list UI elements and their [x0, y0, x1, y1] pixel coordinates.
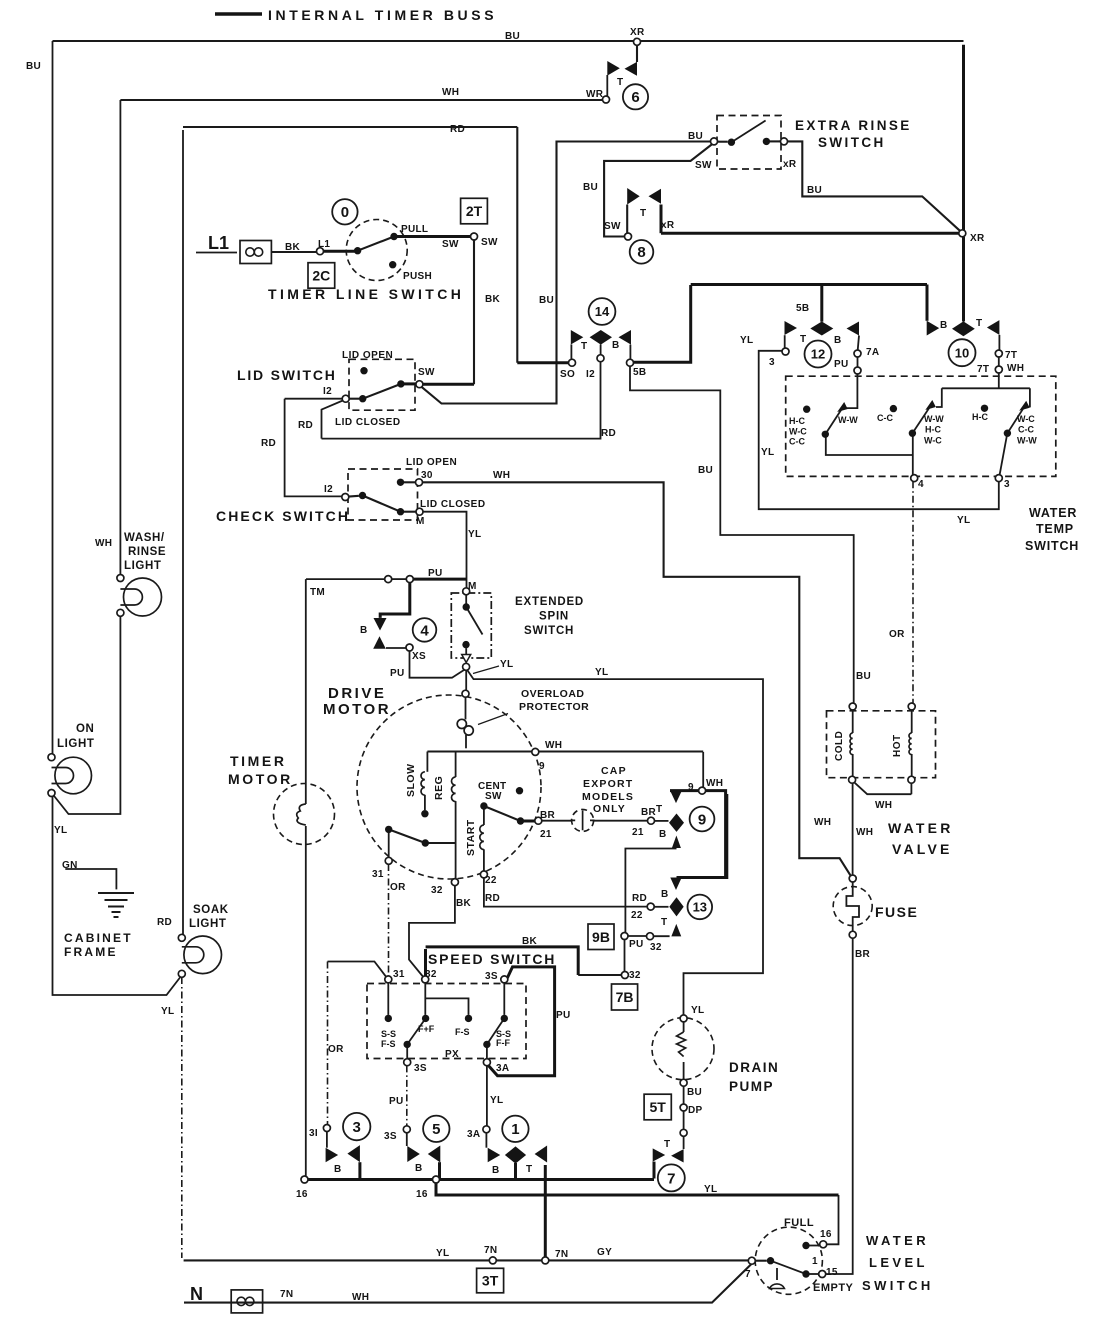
- svg-text:SW: SW: [418, 367, 435, 378]
- svg-text:2C: 2C: [312, 267, 330, 283]
- svg-text:7T: 7T: [1005, 350, 1017, 361]
- svg-text:GY: GY: [597, 1247, 612, 1258]
- svg-text:YL: YL: [490, 1095, 503, 1106]
- svg-text:WH: WH: [814, 817, 831, 828]
- svg-text:M: M: [416, 516, 425, 527]
- svg-text:22: 22: [631, 910, 643, 921]
- svg-text:RD: RD: [157, 917, 172, 928]
- svg-text:SWITCH: SWITCH: [524, 625, 574, 637]
- svg-text:3I: 3I: [309, 1128, 318, 1139]
- svg-text:C-C: C-C: [1018, 425, 1034, 435]
- svg-text:PX: PX: [445, 1049, 459, 1060]
- svg-text:LIGHT: LIGHT: [57, 738, 95, 750]
- svg-text:16: 16: [296, 1189, 308, 1200]
- svg-text:DP: DP: [688, 1105, 703, 1116]
- svg-text:LID CLOSED: LID CLOSED: [335, 417, 401, 428]
- svg-text:BR: BR: [540, 810, 556, 821]
- svg-text:2T: 2T: [466, 203, 483, 219]
- svg-text:12: 12: [811, 347, 825, 362]
- svg-text:EXTRA RINSE: EXTRA RINSE: [795, 118, 912, 133]
- svg-text:BR: BR: [641, 807, 657, 818]
- svg-text:YL: YL: [761, 447, 774, 458]
- svg-text:XR: XR: [970, 233, 985, 244]
- svg-text:LID CLOSED: LID CLOSED: [420, 499, 486, 510]
- svg-text:PU: PU: [556, 1010, 571, 1021]
- svg-text:DRIVE: DRIVE: [328, 685, 386, 702]
- svg-text:3: 3: [353, 1119, 361, 1136]
- svg-text:WH: WH: [706, 778, 723, 789]
- svg-text:I2: I2: [586, 369, 595, 380]
- svg-text:YL: YL: [436, 1248, 449, 1259]
- svg-text:COLD: COLD: [834, 731, 845, 761]
- svg-text:31: 31: [393, 969, 405, 980]
- svg-text:OR: OR: [889, 629, 905, 640]
- svg-text:7N: 7N: [484, 1245, 497, 1256]
- svg-text:SO: SO: [560, 369, 575, 380]
- svg-text:SW: SW: [442, 239, 459, 250]
- svg-text:3S: 3S: [384, 1131, 397, 1142]
- svg-text:3S: 3S: [414, 1063, 427, 1074]
- svg-text:B: B: [360, 625, 368, 636]
- svg-text:B: B: [612, 340, 620, 351]
- svg-text:FUSE: FUSE: [875, 904, 918, 920]
- svg-text:RD: RD: [261, 438, 276, 449]
- svg-text:7T: 7T: [977, 364, 989, 375]
- svg-text:SPIN: SPIN: [539, 611, 569, 623]
- svg-text:I2: I2: [323, 386, 332, 397]
- svg-text:T: T: [640, 208, 646, 219]
- svg-text:CABINET: CABINET: [64, 931, 133, 945]
- svg-text:BK: BK: [522, 936, 538, 947]
- svg-text:B: B: [661, 889, 669, 900]
- svg-text:BU: BU: [856, 671, 871, 682]
- svg-text:T: T: [526, 1164, 532, 1175]
- svg-text:10: 10: [955, 345, 969, 360]
- svg-text:xR: xR: [661, 220, 675, 231]
- svg-text:SLOW: SLOW: [405, 764, 417, 798]
- svg-text:3: 3: [1004, 479, 1010, 490]
- svg-text:SWITCH: SWITCH: [818, 135, 886, 150]
- svg-text:T: T: [800, 334, 806, 345]
- svg-text:SW: SW: [604, 221, 621, 232]
- svg-text:SW: SW: [695, 160, 712, 171]
- svg-text:RD: RD: [485, 893, 500, 904]
- svg-text:3T: 3T: [482, 1273, 499, 1289]
- svg-text:PU: PU: [834, 359, 849, 370]
- svg-text:32: 32: [425, 969, 437, 980]
- svg-text:5B: 5B: [633, 367, 646, 378]
- svg-text:WH: WH: [352, 1292, 369, 1303]
- svg-text:7A: 7A: [866, 347, 879, 358]
- svg-text:22: 22: [485, 875, 497, 886]
- svg-text:CHECK SWITCH: CHECK SWITCH: [216, 508, 350, 524]
- svg-text:OVERLOAD: OVERLOAD: [521, 688, 585, 700]
- svg-text:BU: BU: [505, 31, 520, 42]
- svg-text:RD: RD: [601, 428, 616, 439]
- svg-text:W-C: W-C: [1017, 414, 1035, 424]
- svg-text:C-C: C-C: [877, 413, 893, 423]
- svg-text:LEVEL: LEVEL: [869, 1255, 928, 1270]
- svg-text:B: B: [834, 335, 842, 346]
- svg-text:3: 3: [769, 357, 775, 368]
- svg-text:32: 32: [650, 942, 662, 953]
- svg-text:31: 31: [372, 869, 384, 880]
- svg-text:LID SWITCH: LID SWITCH: [237, 367, 337, 383]
- svg-text:32: 32: [431, 885, 443, 896]
- svg-text:OR: OR: [328, 1044, 344, 1055]
- svg-text:WASH/: WASH/: [124, 532, 165, 544]
- svg-text:I2: I2: [324, 484, 333, 495]
- svg-text:B: B: [334, 1164, 342, 1175]
- svg-text:WATER: WATER: [1029, 506, 1077, 520]
- svg-text:W-W: W-W: [1017, 436, 1037, 446]
- svg-text:PU: PU: [428, 568, 443, 579]
- svg-text:RD: RD: [450, 124, 465, 135]
- svg-text:T: T: [617, 77, 623, 88]
- svg-text:7: 7: [667, 1170, 675, 1187]
- svg-text:SWITCH: SWITCH: [1025, 539, 1079, 553]
- svg-text:REG: REG: [433, 776, 445, 800]
- svg-text:BU: BU: [698, 465, 713, 476]
- svg-text:9B: 9B: [592, 929, 610, 945]
- svg-text:30: 30: [421, 470, 433, 481]
- svg-text:BR: BR: [855, 949, 871, 960]
- svg-text:F-F: F-F: [496, 1038, 510, 1048]
- svg-text:7B: 7B: [616, 989, 634, 1005]
- svg-text:YL: YL: [468, 529, 481, 540]
- svg-text:EMPTY: EMPTY: [813, 1282, 854, 1294]
- svg-text:xR: xR: [783, 159, 797, 170]
- svg-text:W-W: W-W: [838, 415, 858, 425]
- svg-text:WR: WR: [586, 89, 604, 100]
- svg-text:0: 0: [341, 204, 349, 221]
- svg-text:3A: 3A: [467, 1129, 480, 1140]
- svg-text:M: M: [468, 581, 477, 592]
- svg-text:CAP: CAP: [601, 765, 627, 777]
- svg-text:T: T: [656, 804, 662, 815]
- svg-text:SW: SW: [481, 237, 498, 248]
- svg-text:3A: 3A: [496, 1063, 509, 1074]
- svg-text:H-C: H-C: [972, 412, 988, 422]
- svg-text:PU: PU: [629, 939, 644, 950]
- svg-text:WATER: WATER: [866, 1233, 929, 1248]
- svg-text:W-W: W-W: [924, 414, 944, 424]
- svg-text:F-S: F-S: [381, 1039, 396, 1049]
- svg-text:9: 9: [688, 782, 694, 793]
- svg-text:YL: YL: [54, 825, 67, 836]
- svg-text:T: T: [664, 1139, 670, 1150]
- svg-text:T: T: [661, 917, 667, 928]
- svg-text:BK: BK: [285, 242, 301, 253]
- svg-text:32: 32: [629, 970, 641, 981]
- svg-text:RD: RD: [298, 420, 313, 431]
- svg-text:16: 16: [820, 1229, 832, 1240]
- svg-text:PUSH: PUSH: [403, 271, 432, 282]
- svg-text:TIMER: TIMER: [230, 753, 287, 769]
- svg-text:OR: OR: [390, 882, 406, 893]
- svg-text:BU: BU: [26, 61, 41, 72]
- svg-text:L1: L1: [318, 239, 330, 250]
- svg-text:TIMER LINE SWITCH: TIMER LINE SWITCH: [268, 286, 464, 302]
- svg-text:B: B: [492, 1165, 500, 1176]
- svg-text:SPEED SWITCH: SPEED SWITCH: [428, 951, 556, 967]
- svg-text:TEMP: TEMP: [1036, 522, 1074, 536]
- svg-text:13: 13: [693, 900, 707, 915]
- svg-text:FRAME: FRAME: [64, 945, 118, 959]
- svg-text:7N: 7N: [555, 1249, 568, 1260]
- svg-text:9: 9: [698, 811, 706, 828]
- svg-text:LIGHT: LIGHT: [124, 560, 162, 572]
- svg-text:ONLY: ONLY: [593, 803, 626, 815]
- svg-text:YL: YL: [595, 667, 608, 678]
- svg-text:SWITCH: SWITCH: [862, 1278, 934, 1293]
- svg-text:INTERNAL TIMER BUSS: INTERNAL TIMER BUSS: [268, 7, 497, 23]
- svg-text:START: START: [465, 819, 477, 856]
- svg-text:HOT: HOT: [892, 734, 903, 757]
- svg-text:TM: TM: [310, 587, 325, 598]
- svg-text:5B: 5B: [796, 303, 809, 314]
- svg-text:B: B: [940, 320, 948, 331]
- svg-text:B: B: [659, 829, 667, 840]
- svg-text:C-C: C-C: [789, 437, 805, 447]
- svg-text:DRAIN: DRAIN: [729, 1060, 779, 1075]
- svg-text:F+F: F+F: [418, 1024, 435, 1034]
- svg-text:WH: WH: [493, 470, 510, 481]
- svg-text:MODELS: MODELS: [582, 791, 634, 803]
- svg-text:ON: ON: [76, 723, 94, 735]
- svg-text:WH: WH: [95, 538, 112, 549]
- svg-text:BU: BU: [807, 185, 822, 196]
- svg-text:B: B: [415, 1163, 423, 1174]
- svg-text:PULL: PULL: [401, 224, 428, 235]
- svg-text:SW: SW: [485, 791, 502, 802]
- svg-text:WH: WH: [1007, 363, 1024, 374]
- svg-text:WATER: WATER: [888, 820, 954, 836]
- svg-text:YL: YL: [740, 335, 753, 346]
- svg-text:YL: YL: [691, 1005, 704, 1016]
- svg-text:5T: 5T: [650, 1099, 667, 1115]
- svg-text:BK: BK: [456, 898, 472, 909]
- svg-text:H-C: H-C: [789, 416, 805, 426]
- svg-text:16: 16: [416, 1189, 428, 1200]
- svg-text:BU: BU: [539, 295, 554, 306]
- svg-text:YL: YL: [957, 515, 970, 526]
- svg-text:7N: 7N: [280, 1289, 293, 1300]
- svg-text:LIGHT: LIGHT: [189, 918, 227, 930]
- svg-text:T: T: [976, 318, 982, 329]
- svg-text:W-C: W-C: [789, 427, 807, 437]
- svg-text:5: 5: [432, 1121, 440, 1138]
- svg-text:RD: RD: [632, 893, 647, 904]
- svg-text:21: 21: [632, 827, 644, 838]
- svg-text:RINSE: RINSE: [128, 546, 166, 558]
- svg-text:WH: WH: [442, 87, 459, 98]
- svg-text:PROTECTOR: PROTECTOR: [519, 701, 589, 713]
- svg-text:H-C: H-C: [925, 425, 941, 435]
- svg-text:WH: WH: [856, 827, 873, 838]
- svg-text:YL: YL: [500, 659, 513, 670]
- svg-text:WH: WH: [875, 800, 892, 811]
- svg-text:LID OPEN: LID OPEN: [406, 457, 457, 468]
- svg-text:S-S: S-S: [381, 1029, 396, 1039]
- svg-text:LID OPEN: LID OPEN: [342, 350, 393, 361]
- svg-text:PU: PU: [390, 668, 405, 679]
- svg-text:EXTENDED: EXTENDED: [515, 596, 584, 608]
- svg-text:8: 8: [637, 244, 645, 261]
- svg-text:L1: L1: [208, 233, 229, 253]
- svg-text:3S: 3S: [485, 971, 498, 982]
- svg-text:VALVE: VALVE: [892, 841, 953, 857]
- svg-text:FULL: FULL: [784, 1217, 814, 1229]
- svg-text:1: 1: [511, 1121, 519, 1138]
- svg-text:MOTOR: MOTOR: [323, 701, 391, 718]
- svg-text:XR: XR: [630, 27, 645, 38]
- svg-text:W-C: W-C: [924, 436, 942, 446]
- svg-text:PU: PU: [389, 1096, 404, 1107]
- svg-text:1: 1: [812, 1256, 818, 1267]
- svg-text:EXPORT: EXPORT: [583, 778, 633, 790]
- svg-text:BK: BK: [485, 294, 501, 305]
- svg-text:14: 14: [595, 304, 610, 319]
- svg-text:F-S: F-S: [455, 1027, 470, 1037]
- svg-text:BU: BU: [583, 182, 598, 193]
- svg-text:4: 4: [420, 622, 429, 639]
- svg-text:MOTOR: MOTOR: [228, 771, 293, 787]
- svg-text:BU: BU: [687, 1087, 702, 1098]
- svg-text:N: N: [190, 1284, 203, 1304]
- svg-text:PUMP: PUMP: [729, 1079, 774, 1094]
- svg-text:GN: GN: [62, 860, 78, 871]
- svg-text:15: 15: [826, 1267, 838, 1278]
- svg-text:BU: BU: [688, 131, 703, 142]
- svg-text:7: 7: [745, 1269, 751, 1280]
- svg-text:WH: WH: [545, 740, 562, 751]
- svg-text:YL: YL: [704, 1184, 717, 1195]
- svg-text:21: 21: [540, 829, 552, 840]
- svg-text:SOAK: SOAK: [193, 904, 229, 916]
- svg-text:9: 9: [539, 761, 545, 772]
- svg-text:T: T: [581, 341, 587, 352]
- svg-text:4: 4: [918, 479, 924, 490]
- svg-text:6: 6: [631, 89, 639, 106]
- svg-text:XS: XS: [412, 651, 426, 662]
- svg-text:YL: YL: [161, 1006, 174, 1017]
